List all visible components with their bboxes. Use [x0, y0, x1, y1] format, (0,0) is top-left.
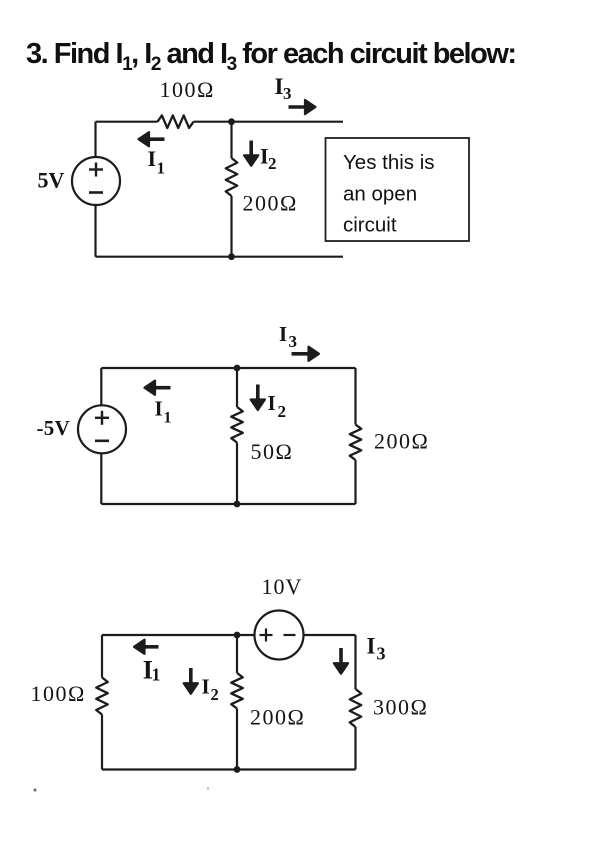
- svg-text:1: 1: [157, 159, 166, 178]
- svg-text:circuit: circuit: [343, 214, 397, 237]
- current arrow I3 (circuit 2, pointing right): [292, 352, 312, 356]
- svg-text:I: I: [155, 397, 163, 421]
- wire C1 top-right segment (open ended): [194, 121, 344, 123]
- svg-text:an open: an open: [343, 183, 417, 206]
- svg-text:100Ω: 100Ω: [31, 681, 86, 706]
- wire C2 top segment: [101, 367, 355, 369]
- svg-text:I: I: [202, 675, 210, 699]
- svg-text:3: 3: [377, 644, 386, 664]
- svg-text:I: I: [367, 634, 376, 659]
- svg-text:1: 1: [164, 410, 172, 427]
- wire C2 right upper lead: [354, 368, 356, 425]
- svg-text:50Ω: 50Ω: [251, 439, 294, 464]
- svg-text:2: 2: [278, 402, 287, 421]
- wire C3 bottom segment: [102, 768, 356, 770]
- node D - C2 bottom junction: [234, 501, 241, 508]
- node E - C3 top junction: [234, 632, 241, 639]
- svg-text:3: 3: [283, 84, 292, 103]
- svg-text:100Ω: 100Ω: [160, 77, 215, 102]
- svg-text:2: 2: [268, 154, 277, 173]
- resistor R4 200Ω (circuit 2 right): [350, 425, 362, 461]
- svg-text:5V: 5V: [38, 168, 65, 193]
- stray speck left: [33, 788, 36, 791]
- svg-text:1: 1: [152, 665, 161, 685]
- wire C2 middle upper lead: [236, 368, 238, 407]
- voltage source V1 5V (circuit 1): [72, 157, 120, 205]
- wire C1 middle lower lead: [230, 196, 232, 257]
- wire C3 right upper lead: [354, 635, 356, 689]
- wire C1 left lower segment: [94, 205, 96, 257]
- svg-text:200Ω: 200Ω: [374, 429, 429, 454]
- voltage source V3 10V (circuit 3, horizontal + -): [255, 611, 304, 660]
- node A - C1 top junction: [228, 118, 235, 125]
- node F - C3 bottom junction: [234, 766, 241, 773]
- wire C2 left lower segment: [100, 453, 102, 504]
- resistor R2 200Ω (circuit 1 middle): [226, 158, 238, 196]
- wire C3 left upper lead: [101, 635, 103, 678]
- wire C3 top-left segment: [102, 634, 255, 636]
- wire C1 bottom segment (open ended): [96, 256, 344, 258]
- wire C3 middle lower lead: [236, 709, 238, 770]
- svg-text:10V: 10V: [262, 574, 303, 599]
- current arrow I2 (circuit 3, pointing down): [189, 668, 193, 686]
- wire C1 middle upper lead: [230, 122, 232, 158]
- wire C3 middle upper lead: [236, 635, 238, 673]
- resistor R1 100Ω (circuit 1 top): [158, 115, 194, 128]
- current arrow I1 (circuit 1, pointing left): [146, 137, 164, 141]
- svg-text:200Ω: 200Ω: [250, 705, 305, 730]
- node B - C1 bottom junction: [228, 253, 235, 260]
- svg-text:I: I: [279, 322, 287, 346]
- wire C2 left upper segment: [100, 368, 102, 406]
- wire C2 middle lower lead: [236, 443, 238, 505]
- svg-text:2: 2: [211, 685, 219, 704]
- svg-text:200Ω: 200Ω: [243, 191, 298, 216]
- current arrow I3 (circuit 1, pointing right): [289, 105, 308, 109]
- resistor R5 100Ω (circuit 3 left): [96, 678, 108, 715]
- stray speck middle: [207, 787, 209, 789]
- svg-text:300Ω: 300Ω: [373, 695, 428, 720]
- resistor R6 200Ω (circuit 3 middle): [231, 673, 243, 709]
- wire C3 left lower lead: [101, 715, 103, 770]
- wire C1 left upper segment: [94, 122, 96, 158]
- svg-text:-5V: -5V: [37, 416, 71, 440]
- current arrow I1 (circuit 2, pointing left): [152, 386, 170, 390]
- current arrow I2 (circuit 1, pointing down): [249, 141, 253, 158]
- svg-text:Yes this is: Yes this is: [343, 151, 435, 174]
- voltage source V2 -5V (circuit 2): [78, 405, 126, 453]
- annotation box: open circuit note: [326, 138, 470, 241]
- resistor R3 50Ω (circuit 2 middle): [231, 407, 243, 443]
- wire C2 bottom segment: [101, 503, 355, 505]
- wire C3 right lower lead: [354, 727, 356, 770]
- svg-text:I: I: [268, 391, 276, 415]
- node C - C2 top junction: [234, 365, 241, 372]
- current arrow I2 (circuit 2, pointing down): [256, 385, 260, 403]
- resistor R7 300Ω (circuit 3 right): [350, 689, 362, 727]
- current arrow I3 (circuit 3, pointing down): [339, 648, 343, 666]
- current arrow I1 (circuit 3, pointing left): [142, 645, 159, 649]
- wire C1 top-left segment: [96, 121, 158, 123]
- title text: [26, 38, 516, 71]
- wire C3 top-right segment: [304, 634, 356, 636]
- wire C2 right lower lead: [354, 460, 356, 504]
- svg-text:3: 3: [289, 332, 298, 351]
- svg-text:I: I: [148, 146, 157, 171]
